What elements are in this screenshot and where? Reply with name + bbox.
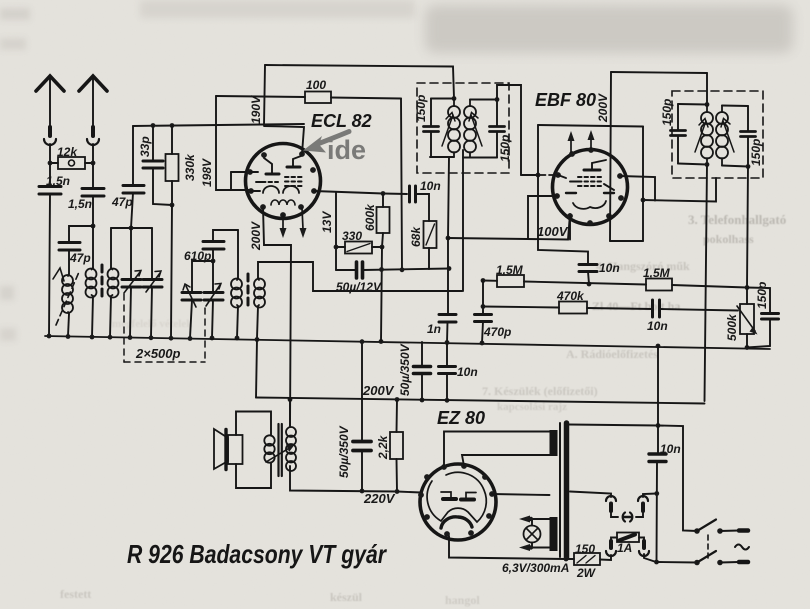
wire 10n to 68k [416,194,430,221]
node 100V line [446,236,451,241]
node pilot bottom [529,545,533,549]
svg-text:1,5n: 1,5n [46,174,70,188]
tube EBF80 envelope [553,150,628,225]
wire 12k-right down [92,163,94,188]
tube ECL82 envelope [246,144,321,219]
node y270 x381 [379,267,384,272]
voltage selector link [623,513,625,522]
IF2 secondary capacitor 150p [747,106,749,167]
wire H1 top loop 190V feed [265,65,454,98]
IF1 primary capacitor 150p [430,99,432,158]
svg-text:33p: 33p [138,136,152,157]
wire antenna1 to 12k node [49,144,51,163]
ECL82 triode anode [266,173,279,176]
antenna coil L1 [68,274,69,314]
capacitor 10n psu [446,343,448,401]
antenna 1 plug pin [48,127,52,136]
ECL82 triode grid (dashed) [262,181,278,183]
wire IF1 secondary bottom to mixer grid drop [462,150,464,291]
svg-text:150p: 150p [414,95,428,122]
capacitor 33p [143,161,163,168]
capacitor 150p tone [762,314,779,320]
output transformer core [279,424,282,476]
wire node to 47p branch [69,226,93,242]
node bus x362 [360,339,365,344]
resistor 2,2k filter [390,432,403,459]
wire EZ80 plate leads to HT winding [444,432,550,468]
wire node to varcap osc-a [192,261,213,292]
node mains mid x656 [654,491,659,496]
output transformer adjust arrow [266,447,291,462]
pilot lamp [524,526,541,543]
svg-text:220V: 220V [363,491,396,506]
IF2 primary trimmer arrow [695,121,706,152]
capacitor 1n [439,315,456,323]
resistor 68k [424,221,437,248]
svg-text:330: 330 [342,229,362,243]
output transformer primary coil [286,427,296,437]
wire speaker loop [236,412,271,489]
ECL82 pins [247,151,317,218]
wire 600k node down to bus [381,247,382,342]
wire IF2 primary bottom to B+ [705,165,708,402]
svg-text:470k: 470k [556,289,585,303]
IF2 primary coil [706,105,708,165]
capacitor 610p [203,242,224,250]
svg-text:198V: 198V [200,158,214,187]
wire mains x658 vertical [657,346,659,562]
svg-text:600k: 600k [363,203,377,231]
wire diode stub pin [528,196,557,239]
svg-text:1,5n: 1,5n [68,197,92,211]
antenna 2 socket cup [87,139,99,145]
wire stub to ECL82 grid pins [231,172,250,190]
svg-text:100V: 100V [537,224,569,239]
IF1 secondary coil [469,100,471,158]
ECL82 internal leads [250,172,262,191]
wire 330k node to bus [171,205,172,337]
tube EZ80 envelope [420,464,496,540]
capacitor 50u/350V first electrolytic [421,342,423,400]
svg-text:festett: festett [60,587,91,601]
wire IF1 secondary top to AGC drop [497,85,521,175]
antenna 2 plug pin [91,127,95,136]
node 33p top [151,123,156,128]
variable capacitor osc-a [182,293,201,301]
node anode junction [641,198,646,203]
capacitor 470p [475,315,492,322]
svg-text:2W: 2W [576,566,597,580]
IF2 secondary tank rails [722,106,748,167]
wire grid-load top rail y125 [538,125,643,127]
selector right pin [641,504,645,512]
wire B+ rail y399 [256,398,705,404]
wire primary top to B+ [289,400,291,428]
wire tone cap branch [747,288,770,348]
wire osc coil primary top [237,230,239,278]
wire 47p to antenna coil [68,250,70,274]
node IF2 primary bottom [705,162,710,167]
svg-text:A. Rádióelőfizetés: A. Rádióelőfizetés [566,347,658,361]
wire ECL82 g2 line y192 to 10n [314,191,407,194]
variable capacitor C-tune1b [151,228,153,279]
wire link to right pin [636,511,643,517]
svg-text:200V: 200V [249,221,263,251]
output transformer secondary coil [264,435,274,445]
IF2 secondary trimmer arrow [723,121,734,152]
resistor 330 [345,242,372,254]
wire voltage selector from transformer [570,492,611,498]
wire fuse right to pin [639,538,644,542]
svg-text:150p: 150p [749,139,763,166]
resistor 330k [166,154,179,181]
wire EZ80 heater to transformer bottom [449,536,566,559]
IF1 primary trimmer arrow [442,115,453,146]
node AF line x589 [587,282,592,287]
speaker driver box [228,435,243,464]
wire 1n to bus [446,322,449,343]
wire 1,5n-right to node y225 [92,196,94,226]
wire 200V screen vertical x610 [610,72,611,241]
resistor 1,5M left [497,275,524,287]
svg-text:50µ/12V: 50µ/12V [336,280,382,294]
ECL82 cathode arcs [263,186,299,193]
wire x643 vertical [642,127,644,242]
AC symbol ~ [735,545,749,550]
power transformer HT winding block [550,430,558,456]
capacitor 10n detector [579,265,597,272]
IF1 primary tank rails [430,99,454,158]
wire 47p grid to tank node [131,193,133,228]
switch pole lower [694,560,700,566]
resistor 150 2W fusible [574,553,600,565]
wire 2,2k leads [396,400,399,492]
svg-text:150: 150 [575,542,595,556]
svg-text:10n: 10n [647,319,668,333]
wire 33p bottom to 330k bottom node [153,168,172,205]
node volume pot top [745,285,750,290]
node 600k top [381,191,386,196]
svg-text:6,3V/300mA: 6,3V/300mA [502,561,569,575]
wire osc secondary bottom to bus [257,306,258,338]
svg-text:1,5M: 1,5M [496,263,524,277]
node IF1 secondary top [495,97,500,102]
wire 190V vertical [264,65,265,125]
node IF2 primary top [705,102,710,107]
capacitor 10n coupling [410,186,416,202]
node 220V/EZ80 [395,489,400,494]
wire 68k bottom [428,248,430,269]
svg-text:1,5M: 1,5M [643,266,671,280]
svg-text:470p: 470p [483,325,511,339]
wire antenna2 to 12k node [92,144,94,163]
wire 600k leads [382,194,383,248]
svg-text:150p: 150p [755,282,769,309]
wire mains bottom to switch lower [657,561,698,564]
svg-text:68k: 68k [409,226,423,247]
svg-text:10n: 10n [599,261,620,275]
wire T1 secondary to bus [110,296,111,337]
wire IF1 primary bottom drop [448,157,449,238]
EZ80 anode plates [443,497,474,502]
wire triode anode pin up to grid line [264,126,304,154]
node 12k left [48,161,53,166]
wire 1,5n-left to bus [49,194,50,336]
wire 12k-left down [49,163,51,186]
wire bus drop to B+ rail x256 [256,340,257,398]
wire 13V cathode branch [335,192,337,270]
capacitor 47p grid [123,186,144,194]
node 10n psu bottom [445,398,450,403]
transformer T1 primary coil [92,268,94,296]
svg-text:190V: 190V [249,95,263,124]
variable capacitor C-tune1 [130,228,132,279]
wire EZ80 plate lead right [492,494,550,495]
cathode arrow right (down) [302,208,303,229]
selector left socket cup [606,496,616,501]
wire fuse right cup to mains node [644,554,656,562]
fuse 1A [617,533,639,543]
EZ80 inner electrode circle [427,472,486,522]
wire IF2 secondary bottom to detector [747,167,748,288]
capacitor 1,5n left [39,187,61,195]
EBF80 grids (dashed) [578,177,604,186]
svg-text:1A: 1A [617,541,632,555]
svg-text:150p: 150p [660,99,674,126]
svg-text:10n: 10n [420,179,441,193]
capacitor 10n AF series [653,300,660,317]
ECL82 heater squiggle [271,200,295,205]
svg-text:3. Telefonhallgató: 3. Telefonhallgató [688,212,786,227]
L1 ferrite adjust dashed arrow [56,272,79,325]
IF transformer 2 dashed box [672,91,763,178]
EBF80 diode plates [566,192,614,194]
node antenna coupling [91,224,96,229]
wire T1 primary to bus [92,296,93,337]
IF1 primary coil [453,99,455,158]
EBF80 internal leads [558,175,614,190]
svg-text:200V: 200V [362,383,395,398]
node mains top x658 [656,423,661,428]
resistor 1,5M right [646,279,672,291]
power transformer heater winding block [550,517,558,551]
svg-text:hangol: hangol [445,593,480,607]
plug pin upper [739,528,748,533]
variable capacitor osc-b [212,261,214,292]
wire osc coil primary bottom to bus [237,306,238,338]
node pilot top [529,517,533,521]
wire 150 to fuse leg [600,555,611,560]
node 600k/330 junction [380,245,385,250]
wire switch lower to plug [720,561,739,564]
svg-text:13V: 13V [320,211,334,233]
wire L1 to bus [68,314,69,336]
node 50u350 bottom [420,398,425,403]
wire primary bottom to 220V line [290,466,397,492]
svg-text:ide: ide [327,135,366,165]
svg-text:500k: 500k [725,313,739,341]
EZ80 pins [418,463,495,537]
resistor 600k [377,207,390,233]
resistor 470k [559,302,587,314]
wire y241 to screen feed [610,240,643,242]
dashed AGC wire to grid pin [541,174,557,176]
antenna 2 lead wire [92,79,94,126]
IF2 primary tank rails [678,104,707,165]
ECL82 pentode grids (dashed) [285,177,302,186]
node 68k bottom junction [447,266,452,271]
wire cathode bottom line y270 [336,269,450,271]
svg-text:10n: 10n [660,442,681,456]
fuse left pin [609,541,613,548]
node 330k bottom [170,203,175,208]
antenna 1 lead wire [49,79,51,126]
capacitor 50u/12V electrolytic [357,262,363,278]
capacitor 47p antenna [59,243,80,251]
wire selector left pin to link [611,511,618,517]
node 470k row left [481,304,486,309]
wire EBF80 cathode pin to 100V [569,216,571,240]
antenna 1 symbol [36,76,64,91]
power transformer core thick [564,423,570,558]
capacitor 10n mains [649,454,666,462]
wire switch upper to plug [720,530,739,533]
node B+ x397 [395,397,400,402]
node IF1 primary top [452,96,457,101]
svg-text:pokolhass: pokolhass [703,232,754,246]
node 330 left [334,245,339,250]
power transformer core thin [559,423,561,557]
wire H2 right corner down [401,99,402,271]
IF2 primary capacitor 150p [677,104,679,164]
switch gang dashed link [707,535,709,558]
wire anode line y200 [643,178,716,202]
svg-text:Zl 40—Ft bolt ha: Zl 40—Ft bolt ha [592,299,680,313]
node 330k top [170,123,175,128]
svg-text:EZ 80: EZ 80 [437,408,485,428]
node 12k right [91,161,96,166]
node bus x213 [210,336,215,341]
IF2 secondary coil [721,106,723,166]
fuse right socket cup [639,551,649,556]
fuse right pin [642,541,646,548]
wire selector right cup up to mains [643,494,657,498]
svg-text:kapcsolási rajz: kapcsolási rajz [497,401,567,413]
wire EBF80 anode loop [620,176,655,201]
svg-text:50µ/350V: 50µ/350V [337,425,351,478]
wire 100V line [448,214,570,240]
EZ80 cathode arc [441,517,472,528]
wire EZ80 cathode lead [397,492,421,493]
wire osc grid: 610p top hook [213,230,238,241]
capacitor 50u/350V second electrolytic [361,342,363,491]
svg-text:47p: 47p [111,195,133,209]
ghost blur band top-right [425,5,793,53]
svg-text:ECL 82: ECL 82 [311,111,372,131]
wire T1 secondary top to tank rail [110,228,112,268]
capacitor 1,5n right [82,189,104,197]
T1 secondary coil [111,268,113,296]
antenna 2 symbol [79,76,107,91]
node 220V line x362 [360,489,365,494]
node osc coil bus [235,336,240,341]
svg-text:330k: 330k [183,153,197,181]
resistor 100 [305,92,331,104]
resistor 12k [58,157,85,169]
wire grid line y125 [133,124,304,126]
selector left pin [609,504,613,512]
wire AGC to EBF80 grid solid part [521,174,540,176]
wire 470p to bus [482,322,483,344]
node 470p top [481,278,486,283]
svg-text:R 926 Badacsony VT gyár: R 926 Badacsony VT gyár [127,539,388,569]
svg-text:7. Készülék (előfizetői): 7. Készülék (előfizetői) [482,384,598,398]
wire H2 anode line with 100 resistor [216,96,401,99]
svg-text:47p: 47p [69,251,91,265]
node y270 x402 [400,267,405,272]
switch pole upper [694,528,700,534]
wire pentode anode pin down to output [263,207,291,427]
node mains bottom x656 [654,560,659,565]
node AGC junction [536,173,541,178]
wire top feed y73 [611,72,707,73]
IF transformer 1 dashed box [417,83,509,173]
svg-text:készül: készül [330,590,363,604]
svg-text:EBF 80: EBF 80 [535,90,596,110]
svg-text:150p: 150p [498,135,512,162]
svg-text:2,2k: 2,2k [376,434,390,460]
EBF80 grid cap bar [584,169,600,172]
IF1 secondary trimmer arrow [471,115,482,146]
svg-text:10n: 10n [457,365,478,379]
IF1 secondary capacitor 150p [496,100,498,158]
svg-text:50µ/350V: 50µ/350V [398,343,412,396]
dashed gang link 2x500p [124,294,205,362]
oscillator coil primary [237,278,238,306]
wire 470p branch [482,281,484,315]
wire 33p top [152,126,154,162]
EBF80 cathode arc [573,201,606,209]
pilot lamp leads with arrows [531,519,533,548]
svg-text:12k: 12k [57,145,78,159]
ECL82 pentode anode [287,166,300,169]
node IF2 secondary bottom [746,164,751,169]
wire IF2 primary top riser [706,73,708,104]
wire 198V feed [216,96,231,190]
oscillator coil secondary [258,278,259,306]
wire fuse left pin to fuse [611,538,617,542]
T1 core dashed [101,265,104,299]
wire osc secondary top to mixer grid [258,262,462,291]
svg-text:1n: 1n [427,322,441,336]
tank rail wire y228 [111,227,152,229]
wire 330k leads [171,126,173,206]
ground bus wire [45,336,770,349]
EBF80 pins [554,147,624,226]
EBF80 heater arrows up [571,139,591,152]
svg-text:100: 100 [306,78,326,92]
node transformer bottom [564,557,569,562]
speaker cone [214,429,228,469]
plug pin lower [739,560,748,565]
IF1 secondary tank rails [463,100,497,158]
bus junction nodes [47,334,750,350]
fuse left socket cup [606,551,616,556]
wire 470k row y307 [483,307,738,311]
node tank rail / 47p grid [129,226,134,231]
wire mains switch feed upper [658,426,697,532]
ghost blur band top-left [140,0,415,18]
